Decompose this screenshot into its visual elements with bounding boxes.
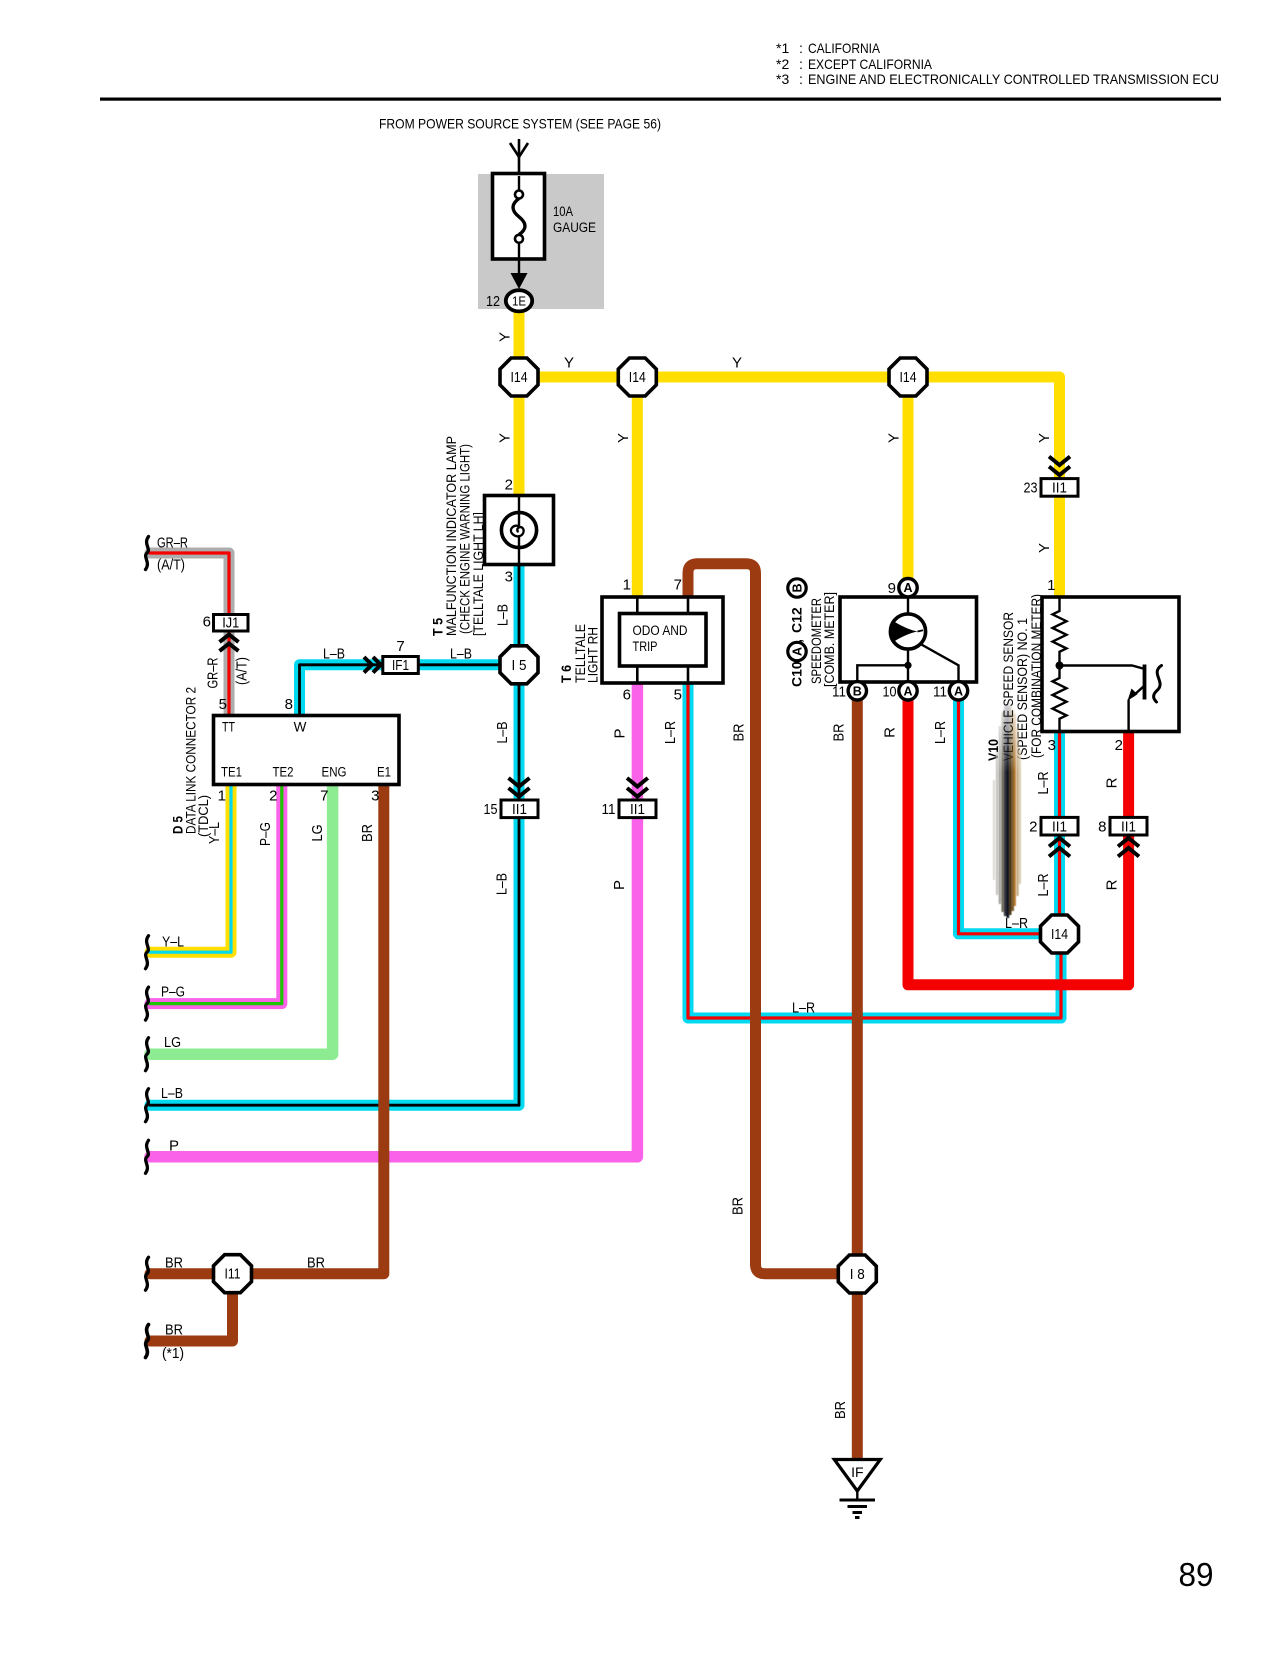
wire LG from D5 ENG to connector xyxy=(150,785,333,1054)
svg-text:10: 10 xyxy=(883,683,897,700)
svg-text:P–G: P–G xyxy=(257,822,274,846)
svg-text:[COMB. METER]: [COMB. METER] xyxy=(822,592,837,687)
svg-text:1: 1 xyxy=(1047,577,1055,594)
svg-text:ENG: ENG xyxy=(322,765,347,780)
V10 junction dot xyxy=(1056,662,1064,670)
svg-text:Y: Y xyxy=(564,355,574,372)
svg-text:5: 5 xyxy=(674,687,682,704)
ground stem xyxy=(856,1491,858,1500)
svg-text:Y: Y xyxy=(497,433,514,443)
svg-text:I14: I14 xyxy=(900,370,917,386)
svg-text:L–B: L–B xyxy=(161,1085,183,1102)
svg-text:BR: BR xyxy=(165,1255,183,1272)
fuse F 10A GAUGE box xyxy=(493,174,545,260)
speedometer needle line to pinA11 xyxy=(921,644,959,682)
svg-text:5: 5 xyxy=(219,696,227,713)
wire BR from I11 to connector xyxy=(150,1268,215,1279)
svg-text:I11: I11 xyxy=(225,1267,241,1283)
connector II1-11 box xyxy=(619,800,656,818)
svg-text:A: A xyxy=(903,684,912,698)
svg-text:(FOR COMBINATION METER): (FOR COMBINATION METER) xyxy=(1029,594,1044,758)
svg-text:L–R: L–R xyxy=(932,721,949,744)
svg-text:I14: I14 xyxy=(1051,927,1068,943)
svg-text:EXCEPT CALIFORNIA: EXCEPT CALIFORNIA xyxy=(808,56,933,72)
svg-text:I14: I14 xyxy=(629,370,646,386)
connector bracket L-B xyxy=(146,1089,149,1122)
splice I14 c xyxy=(889,358,927,396)
svg-text:,: , xyxy=(789,639,805,643)
svg-text:L–R: L–R xyxy=(1035,771,1052,794)
wire Y drop to T6 pin1 xyxy=(632,377,643,598)
connector bracket Y-L xyxy=(146,936,149,969)
svg-text:LG: LG xyxy=(164,1034,181,1051)
svg-text:BR: BR xyxy=(730,1197,747,1215)
svg-text:L–B: L–B xyxy=(450,646,472,663)
svg-text:BR: BR xyxy=(731,723,748,741)
desc C10 designator with circled A B xyxy=(788,579,806,687)
svg-text:IF: IF xyxy=(851,1464,863,1480)
svg-text:L–B: L–B xyxy=(494,873,511,895)
scan smear artifact xyxy=(994,703,1020,918)
svg-text:1: 1 xyxy=(623,577,631,594)
svg-text:FROM POWER SOURCE SYSTEM (SEE: FROM POWER SOURCE SYSTEM (SEE PAGE 56) xyxy=(379,116,661,132)
sensor V10 box xyxy=(1042,597,1179,732)
speedometer leads xyxy=(907,597,909,614)
T6 pin stubs xyxy=(637,597,688,683)
svg-text:Y: Y xyxy=(1036,433,1053,443)
splice I11 xyxy=(214,1255,252,1293)
svg-text:*1: *1 xyxy=(776,40,789,56)
wire Y drop to speedometer pin9 xyxy=(903,377,914,588)
wire L-R from T6 pin5 down right and up to I14 xyxy=(688,684,1061,1018)
svg-text:15: 15 xyxy=(484,801,498,818)
svg-text:GR–R: GR–R xyxy=(205,657,222,688)
svg-text:Y: Y xyxy=(732,355,742,372)
svg-text:I 8: I 8 xyxy=(850,1267,865,1283)
svg-text:LIGHT RH: LIGHT RH xyxy=(586,627,601,683)
svg-text:IJ1: IJ1 xyxy=(222,616,239,632)
svg-text::: : xyxy=(799,71,803,87)
svg-text:Y: Y xyxy=(497,332,514,342)
svg-text:*2: *2 xyxy=(776,56,789,72)
wire BR from speedometer pinB11 down to I8 xyxy=(852,699,863,1274)
ground IF triangle xyxy=(834,1460,880,1492)
connector II1-15 box xyxy=(501,800,538,818)
svg-text:W: W xyxy=(294,720,307,735)
V10 base link xyxy=(1060,666,1144,669)
V10 transistor bar xyxy=(1143,665,1147,700)
connector 1E oval xyxy=(506,290,532,311)
wire L-R from speedometer pinA11 to I14 xyxy=(959,699,1060,934)
wire L-R from I14 up through II1-2 to V10 pin3 xyxy=(1054,733,1065,934)
svg-text:BR: BR xyxy=(831,723,848,741)
svg-text:L–B: L–B xyxy=(495,604,512,626)
V10 transistor emitter with arrow xyxy=(1129,686,1145,732)
svg-text:B: B xyxy=(791,583,805,592)
connector bracket P-G xyxy=(146,987,149,1020)
speedometer gauge symbol xyxy=(890,614,925,649)
svg-text:I 5: I 5 xyxy=(512,658,527,674)
II1-11 chevron down xyxy=(627,778,648,797)
ground bars xyxy=(840,1499,876,1502)
wire BR from I8 to ground IF xyxy=(852,1290,863,1460)
header rule xyxy=(100,98,1221,101)
svg-text:6: 6 xyxy=(203,614,211,631)
svg-text:3: 3 xyxy=(371,788,379,805)
svg-text:LG: LG xyxy=(309,825,326,842)
connector IJ1 box xyxy=(214,615,249,632)
IJ1 chevron up xyxy=(220,635,239,652)
wire BR from I11 down to connector (*1) xyxy=(150,1291,233,1341)
svg-text:(A/T): (A/T) xyxy=(234,657,251,685)
svg-text:89: 89 xyxy=(1179,1556,1214,1593)
connector II1-23 box xyxy=(1041,479,1078,497)
svg-text:P–G: P–G xyxy=(161,984,185,1001)
svg-text:I14: I14 xyxy=(511,370,528,386)
wire Y horizontal bus and right drop to V10 pin1 xyxy=(519,377,1060,598)
svg-text:3: 3 xyxy=(505,569,513,586)
wire P from T6 pin6 through II1 to connector xyxy=(150,684,637,1157)
svg-text:ENGINE AND ELECTRONICALLY CONT: ENGINE AND ELECTRONICALLY CONTROLLED TRA… xyxy=(808,71,1219,87)
speedometer C10 box xyxy=(840,597,977,682)
svg-text:23: 23 xyxy=(1024,480,1038,497)
svg-text:B: B xyxy=(853,684,862,698)
speedometer pinA10 circle xyxy=(899,682,917,700)
svg-text:2: 2 xyxy=(1029,818,1037,835)
II1-8 chevron up xyxy=(1118,838,1139,857)
svg-text:R: R xyxy=(882,727,899,738)
svg-text:12: 12 xyxy=(486,293,500,310)
connector T6 box xyxy=(602,597,723,683)
svg-text:P: P xyxy=(611,880,628,890)
svg-text:8: 8 xyxy=(1098,818,1106,835)
svg-text:E1: E1 xyxy=(377,765,391,780)
svg-text:TT: TT xyxy=(222,720,235,735)
svg-text:GR–R: GR–R xyxy=(157,535,188,552)
svg-text:II1: II1 xyxy=(1121,819,1136,835)
fuse panel gray background xyxy=(478,174,604,309)
svg-text:L–R: L–R xyxy=(1035,873,1052,896)
svg-text:9: 9 xyxy=(888,580,896,597)
wire BR from D5 E1 down to I11 xyxy=(250,785,384,1274)
speedometer pinA11 circle xyxy=(949,682,967,700)
svg-text:IF1: IF1 xyxy=(392,658,409,674)
connector II1-2 box xyxy=(1041,817,1078,835)
svg-text:GAUGE: GAUGE xyxy=(553,220,596,235)
svg-text:7: 7 xyxy=(396,638,404,655)
svg-text:2: 2 xyxy=(505,477,513,494)
svg-text:BR: BR xyxy=(307,1255,325,1272)
T6 inner ODO AND TRIP box xyxy=(620,614,707,667)
svg-text:V10: V10 xyxy=(985,739,1001,761)
connector II1-8 box xyxy=(1110,817,1147,835)
svg-text:T 6: T 6 xyxy=(558,665,574,683)
connector IF1 box xyxy=(383,657,419,675)
splice I14 a xyxy=(500,358,538,396)
splice I5 xyxy=(500,646,538,684)
wire Y-L from D5 TE1 to connector xyxy=(150,785,231,952)
speedometer pinB11 circle xyxy=(848,682,866,700)
svg-text::: : xyxy=(799,40,803,56)
lamp T5 bulb xyxy=(518,496,520,525)
svg-text:Y: Y xyxy=(886,433,903,443)
wire L-B from T5 pin3 through I5 and II1 to connector xyxy=(150,566,519,1105)
svg-text:A: A xyxy=(903,581,912,595)
speedometer junction dot xyxy=(904,662,911,669)
lamp T5 box xyxy=(485,496,554,565)
svg-text:7: 7 xyxy=(674,577,682,594)
svg-text:(*1): (*1) xyxy=(162,1345,184,1362)
fuse element xyxy=(518,176,520,190)
svg-text:II1: II1 xyxy=(630,802,645,818)
connector bracket BR xyxy=(146,1257,149,1290)
wire R from speedometer pinA10 down right and up through II1-8 to V10 pin2 xyxy=(908,699,1129,985)
svg-text:[TELLTALE LIGHT LH]: [TELLTALE LIGHT LH] xyxy=(471,512,486,636)
svg-text:TE1: TE1 xyxy=(221,765,242,780)
feed arrow into fuse xyxy=(518,139,521,176)
splice I14 b xyxy=(618,358,656,396)
svg-text:ODO AND: ODO AND xyxy=(633,623,688,638)
wire P-G from D5 TE2 to connector xyxy=(150,785,282,1004)
svg-text:II1: II1 xyxy=(512,802,527,818)
svg-text:C10: C10 xyxy=(789,661,805,687)
svg-text:2: 2 xyxy=(1115,737,1123,754)
svg-text:6: 6 xyxy=(623,687,631,704)
svg-text:8: 8 xyxy=(285,696,293,713)
svg-text:BR: BR xyxy=(165,1322,183,1339)
svg-text:II1: II1 xyxy=(1052,819,1067,835)
svg-text:Y–L: Y–L xyxy=(162,934,184,951)
connector D5 box xyxy=(214,716,400,785)
svg-text:2: 2 xyxy=(269,788,277,805)
connector bracket LG xyxy=(146,1038,149,1071)
svg-text:L–B: L–B xyxy=(494,722,511,744)
svg-text:TRIP: TRIP xyxy=(633,639,658,654)
svg-text:10A: 10A xyxy=(553,204,573,219)
svg-text:11: 11 xyxy=(602,801,616,818)
svg-text:P: P xyxy=(612,728,629,738)
V10 resistor R1 xyxy=(1053,597,1067,666)
svg-text::: : xyxy=(799,56,803,72)
V10 resistor R2 xyxy=(1053,666,1067,732)
svg-text:TE2: TE2 xyxy=(273,765,294,780)
speedometer pin9 circle A xyxy=(899,579,917,597)
wire BR from T6 pin7 over to I8 xyxy=(688,564,840,1274)
svg-text:II1: II1 xyxy=(1052,481,1067,497)
II1-15 chevron down xyxy=(509,778,530,797)
splice I8 xyxy=(838,1255,876,1293)
connector bracket BR *1 xyxy=(146,1325,149,1358)
II1-2 chevron up xyxy=(1049,838,1070,857)
V10 pickup curve xyxy=(1154,666,1162,703)
svg-text:P: P xyxy=(169,1138,179,1155)
IF1 chevron right xyxy=(364,657,381,673)
svg-text:L–B: L–B xyxy=(323,646,345,663)
II1-23 chevron down xyxy=(1049,457,1070,476)
svg-text:BR: BR xyxy=(359,824,376,842)
wire L-B from D5 W via IF1 to I5 xyxy=(300,665,520,716)
svg-text:A: A xyxy=(954,684,963,698)
svg-text:L–R: L–R xyxy=(792,1000,815,1017)
svg-text:R: R xyxy=(1104,777,1121,788)
svg-text:(A/T): (A/T) xyxy=(157,557,185,574)
wire GR-R from connector to D5 TT xyxy=(150,553,229,716)
svg-text:BR: BR xyxy=(832,1401,849,1419)
connector bracket P xyxy=(146,1140,149,1173)
svg-text:7: 7 xyxy=(320,788,328,805)
svg-text:L–R: L–R xyxy=(662,721,679,744)
svg-text:Y: Y xyxy=(1036,543,1053,553)
svg-text:11: 11 xyxy=(933,683,947,700)
arrow into connector 1E xyxy=(511,273,528,289)
svg-text:*3: *3 xyxy=(776,71,789,87)
svg-text:R: R xyxy=(1104,879,1121,890)
svg-text:1: 1 xyxy=(218,788,226,805)
splice I14 d xyxy=(1041,915,1079,953)
svg-text:C12: C12 xyxy=(789,607,805,633)
svg-text:1E: 1E xyxy=(512,293,526,308)
svg-text:CALIFORNIA: CALIFORNIA xyxy=(808,40,881,56)
connector bracket GR-R xyxy=(146,537,149,570)
svg-text:3: 3 xyxy=(1048,737,1056,754)
svg-text:A: A xyxy=(791,647,805,656)
wire Y main vertical from 1E to T5 pin2 xyxy=(514,311,525,496)
svg-text:Y: Y xyxy=(615,433,632,443)
svg-text:(TDCL): (TDCL) xyxy=(196,795,211,837)
